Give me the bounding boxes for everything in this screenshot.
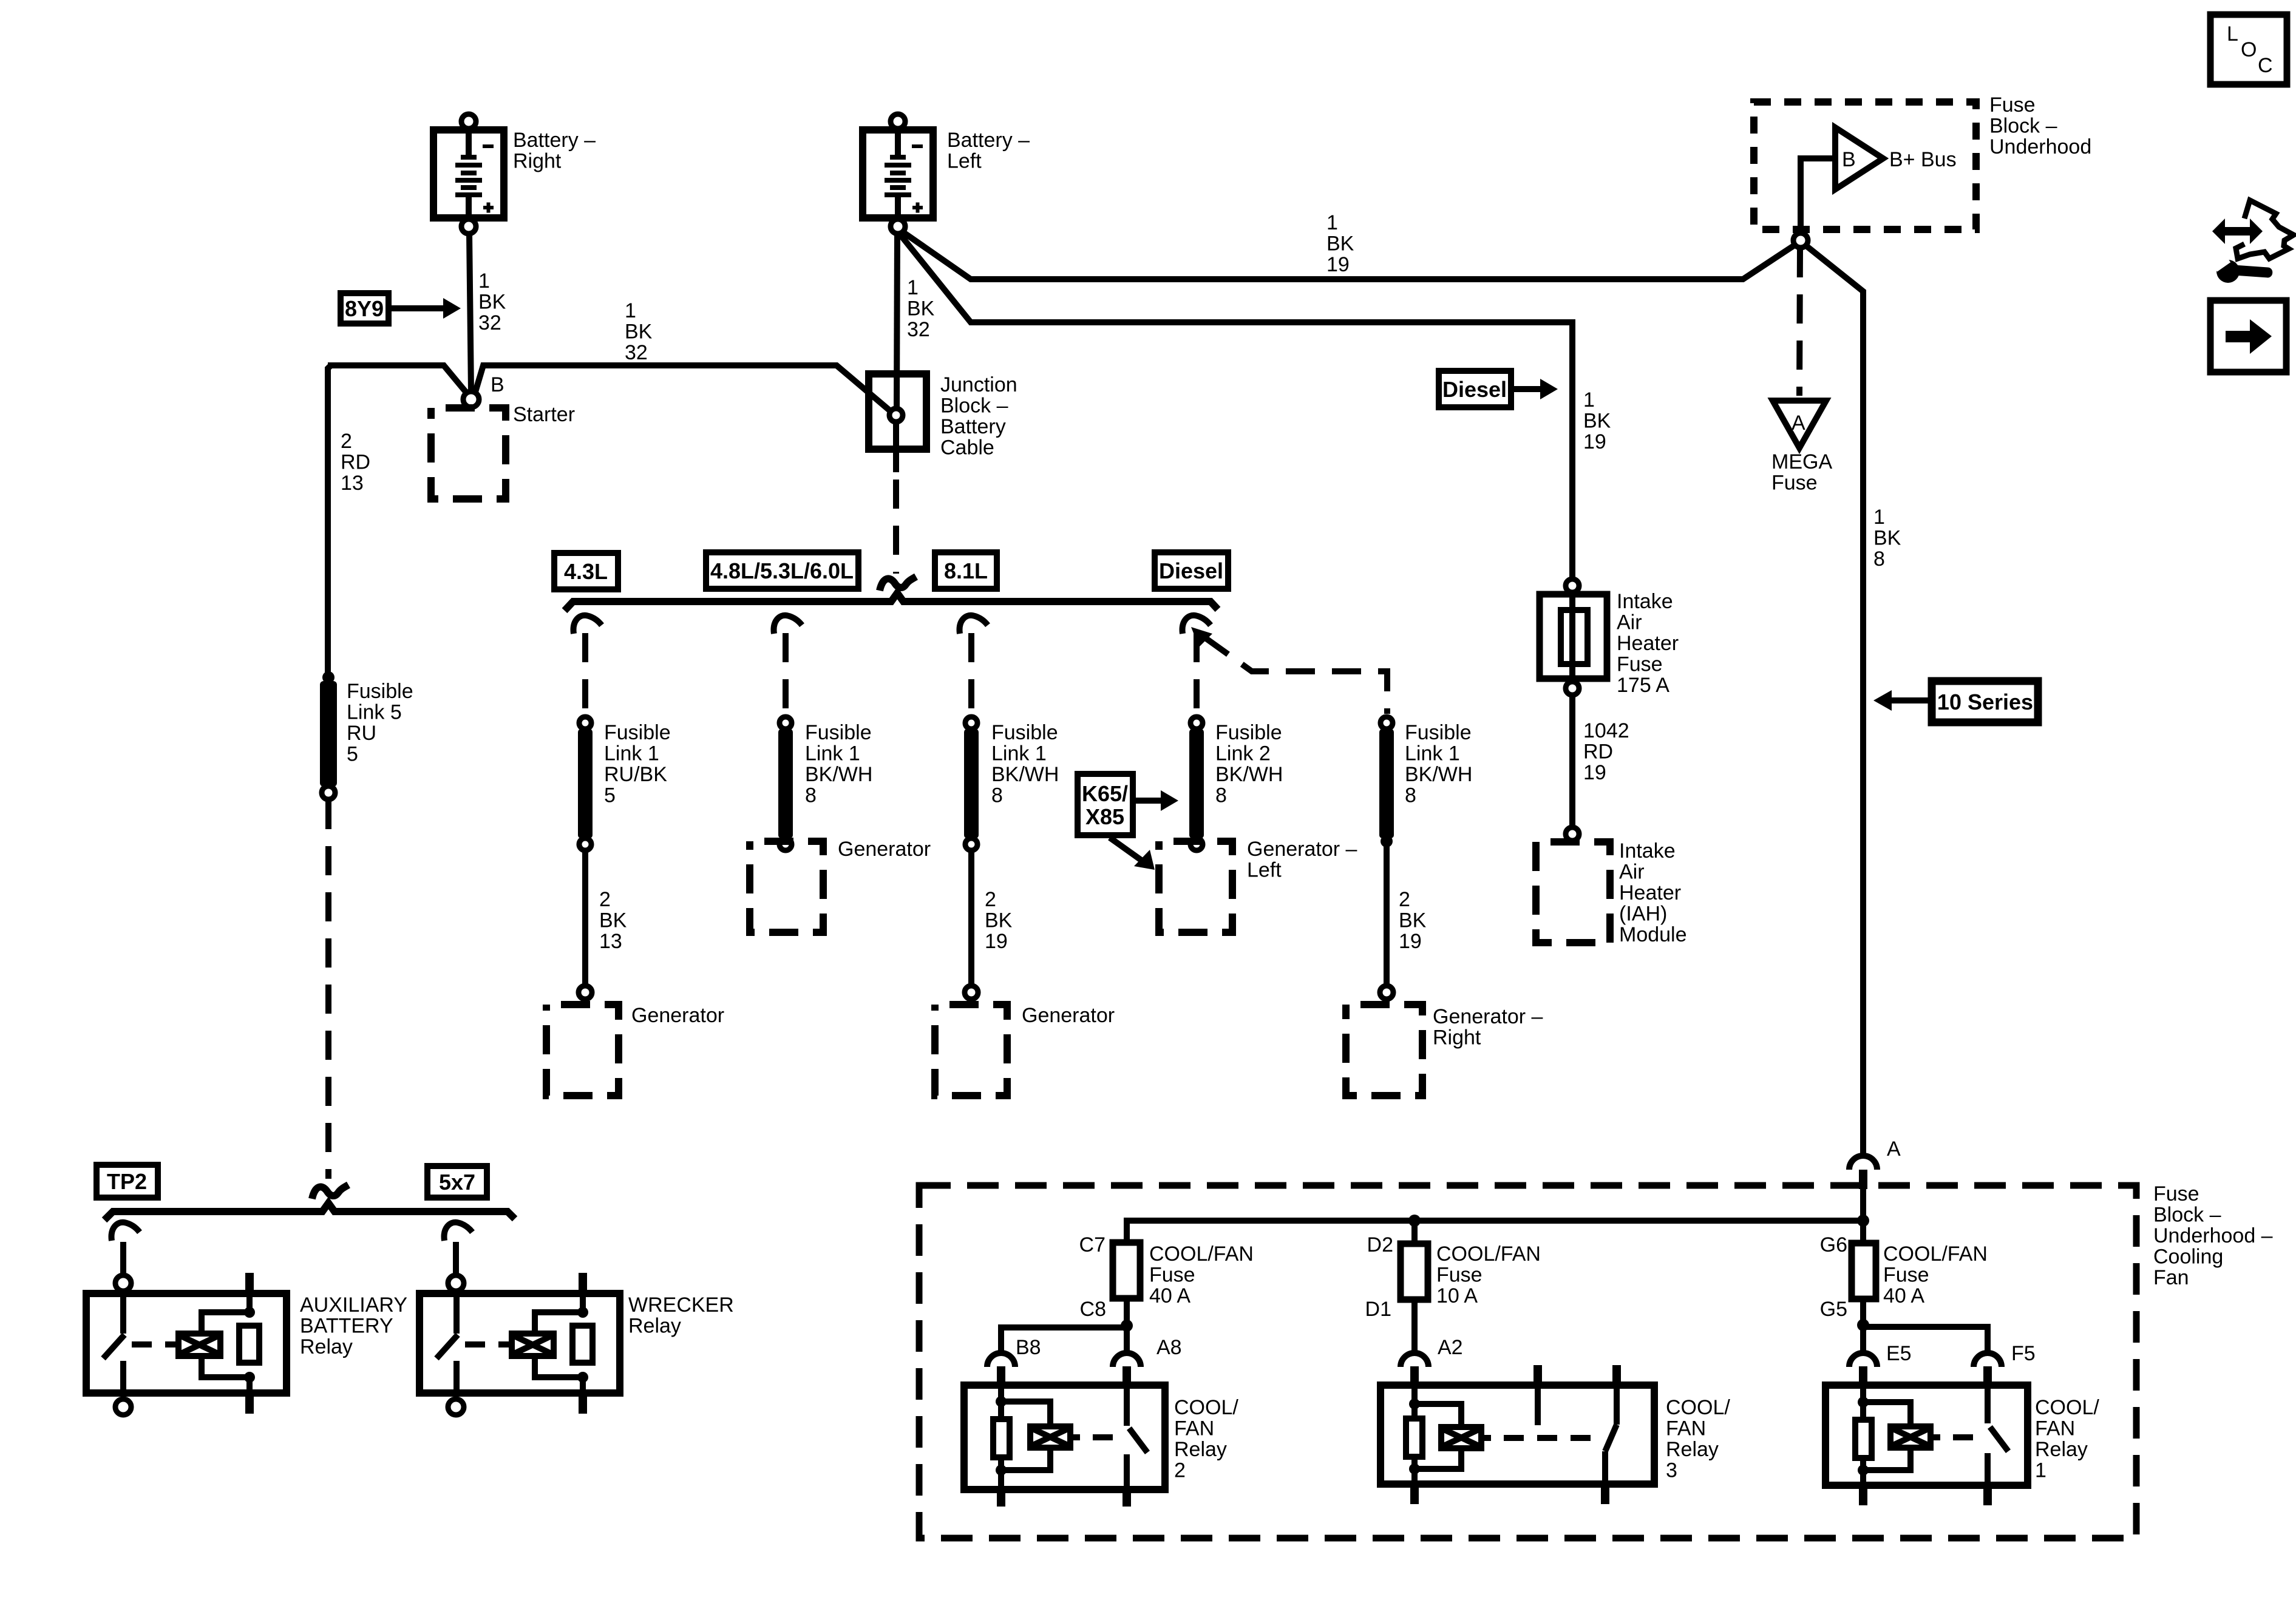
bus line TP2/5x7 [104,1203,515,1220]
svg-text:Diesel: Diesel [1442,377,1507,402]
fuse D2/D1 COOL/FAN 10A [1401,1221,1428,1354]
svg-text:B8: B8 [1016,1336,1041,1359]
generator right dashed box [1346,1005,1422,1096]
dashed wire junction block to engine bus [893,480,899,574]
COOL/FAN relay 2 [964,1385,1165,1507]
dashed wire diesel branch to fusible link 5 [1204,637,1387,714]
dashed wire node to MEGA fuse [1799,248,1800,396]
fuse block underhood cooling fan dashed box [919,1185,2136,1538]
terminal circle generator 2 [965,986,978,999]
LOC legend box [2210,15,2287,84]
terminal circle generator 1 [579,986,592,999]
node below fuse block [1793,233,1808,248]
svg-text:F5: F5 [2011,1342,2036,1365]
engine label 4.8L/5.3L/6.0L [706,552,858,589]
svg-text:O: O [2241,38,2257,61]
arrow K65/X85 to fusible link 4 [1133,798,1166,804]
generator dashed box (4.3L bottom) [546,1005,619,1096]
svg-text:4.3L: 4.3L [564,559,608,584]
battery G2 Battery-Left [863,114,933,234]
engine label 8.1L [935,552,997,589]
COOL/FAN relay 1 [1826,1385,2028,1505]
connector label 8Y9 [341,293,389,324]
engine bus line [565,593,1218,611]
wire junction block stub below [893,422,899,472]
AUXILIARY BATTERY relay [86,1273,287,1414]
wire fusible link 3 to generator (2 BK 19) [968,850,974,986]
svg-text:8.1L: 8.1L [944,558,988,583]
junction dot G5 [1857,1319,1869,1331]
wire node B to left corner [328,365,467,394]
generator dashed box (4.8L) [750,841,823,932]
svg-text:X85: X85 [1085,804,1124,829]
wire hook to WRECKER relay [453,1242,459,1275]
svg-text:IntakeAirHeaterFuse175 A: IntakeAirHeaterFuse175 A [1617,590,1679,697]
icon wrench [2210,253,2273,283]
svg-text:A2: A2 [1438,1336,1463,1359]
arrow 10 Series to wire [1889,697,1932,703]
svg-text:E5: E5 [1886,1342,1912,1365]
wire A to bus [1860,1189,1866,1221]
IAH module dashed box [1536,842,1610,943]
arrow Diesel to wire [1511,386,1545,392]
svg-text:G6: G6 [1820,1233,1847,1256]
connector label 5x7 [427,1166,487,1198]
WRECKER relay [419,1273,620,1414]
svg-text:Generator: Generator [1022,1004,1115,1027]
svg-text:Generator: Generator [838,838,931,861]
junction dot G6 [1857,1215,1869,1227]
terminal circle AUX relay pin 2 [115,1399,131,1415]
wire node to right vertical (1 BK 8) [1805,245,1863,1154]
wire 2 RD 13 vertical [328,365,331,674]
drop hook 5x7 [444,1222,472,1241]
engine label Diesel [1155,552,1228,589]
dashed drop to fusible link 4 [1194,633,1200,715]
wire node B to junction block (1 BK 32) [475,365,892,413]
wire fusible link 1 to generator (2 BK 13) [582,850,588,986]
terminal circle AUX relay pin 1 [115,1275,131,1291]
fuse C7/C8 COOL/FAN 40A [1113,1242,1140,1323]
terminal circle generator right [1380,986,1393,999]
arrow K65/X85 to generator left [1110,838,1144,862]
wire C8 to B8 [1001,1327,1127,1354]
node B [463,392,479,407]
junction dot C8 [1121,1320,1133,1332]
junction block - battery cable [869,374,926,449]
connector B8 [987,1353,1015,1385]
engine label 4.3L [554,553,618,589]
connector A8 [1113,1353,1141,1385]
wire fuse to IAH module (1042 RD 19) [1569,695,1575,827]
svg-text:C: C [2258,54,2273,77]
triangle B+ Bus terminal B [1835,127,1883,189]
terminal circle IAH module [1566,827,1579,841]
wire G5 to F5 [1863,1327,1988,1354]
junction dot D2 [1408,1215,1421,1227]
wire B+ bus triangle to node [1801,158,1835,232]
dashed drop to fusible link 2 [783,633,789,715]
terminal circle WRECKER relay pin 1 [448,1275,464,1291]
dashed drop to fusible link 1 [582,633,588,715]
connector F5 [1974,1353,2002,1385]
wire battery-right to node B [469,234,471,392]
wire C8 to A8 [1124,1327,1130,1354]
svg-text:D2: D2 [1367,1233,1393,1256]
svg-text:C7: C7 [1079,1233,1106,1256]
wire hook to AUX relay [120,1242,126,1275]
fuse G6/G5 COOL/FAN 40A [1852,1221,1876,1323]
svg-text:B: B [491,373,504,396]
svg-text:A8: A8 [1156,1336,1182,1359]
generator dashed box (8.1L bottom) [935,1005,1007,1096]
svg-text:G5: G5 [1820,1298,1847,1321]
svg-text:Diesel: Diesel [1159,558,1223,583]
fusible link 1 [578,717,593,850]
drop hook TP2 [112,1222,140,1241]
wire G5 to E5 [1860,1325,1866,1354]
svg-text:C8: C8 [1080,1298,1106,1321]
svg-text:5x7: 5x7 [439,1170,475,1195]
connector A2 [1401,1353,1428,1385]
svg-text:K65/: K65/ [1082,781,1128,806]
fusible link 2 [778,717,793,850]
drop hook 4.3L [574,615,602,634]
connector label TP2 [97,1165,158,1198]
fuse block underhood dashed box [1754,102,1976,229]
svg-text:TP2: TP2 [107,1169,147,1194]
svg-text:Starter: Starter [513,403,575,426]
icon boxed arrow [2210,300,2286,372]
connector E5 [1849,1353,1877,1385]
connector label K65/X85 [1078,774,1133,835]
wire battery-left to fuse block (1 BK 19) [901,231,1798,279]
svg-text:D1: D1 [1365,1298,1391,1321]
connector A [1849,1156,1877,1189]
svg-text:Generator: Generator [631,1004,724,1027]
fusible link 3 [964,717,979,850]
intake air heater fuse 175 A [1540,579,1607,695]
connector label Diesel (IAH wire) [1439,371,1511,407]
drop hook Diesel [1183,615,1211,634]
MEGA fuse triangle A [1773,401,1826,448]
generator left dashed box [1159,841,1232,932]
COOL/FAN relay 3 [1381,1365,1654,1504]
fusible link 4 [1189,717,1204,850]
icon part-locator arrow [2212,200,2294,259]
wire fusible link 5 to generator right (2 BK 19) [1384,845,1390,985]
terminal circle WRECKER relay pin 2 [448,1399,464,1415]
wire battery-left to junction block [897,234,897,407]
svg-text:4.8L/5.3L/6.0L: 4.8L/5.3L/6.0L [710,558,854,583]
dashed drop to fusible link 3 [968,633,974,715]
arrowhead on diesel dashed branch [1191,627,1212,647]
svg-text:A: A [1792,412,1805,435]
svg-text:L: L [2227,22,2238,46]
starter dashed box [431,408,506,499]
break symbol on TP2/5x7 wire [312,1185,348,1199]
drop hook 4.8L [774,615,802,634]
connector label 10 Series [1932,681,2038,722]
svg-text:B: B [1842,148,1856,171]
drop hook 8.1L [960,615,988,634]
fusible link 5 [1379,717,1394,847]
svg-text:10 Series: 10 Series [1937,690,2033,714]
arrow 8Y9 to wire [389,305,448,311]
svg-text:B+ Bus: B+ Bus [1889,148,1957,171]
break symbol on junction block wire [880,577,916,591]
bus line inside fuse block [1127,1221,1863,1242]
dashed wire fusible link 5 to TP2/5x7 bus [325,800,331,1179]
svg-text:8Y9: 8Y9 [345,296,384,321]
wire battery-left to diesel drop [901,236,1572,579]
svg-text:A: A [1887,1137,1901,1161]
battery G1 Battery-Right [433,114,504,234]
fusible link 5 RU (left column) [320,671,337,799]
